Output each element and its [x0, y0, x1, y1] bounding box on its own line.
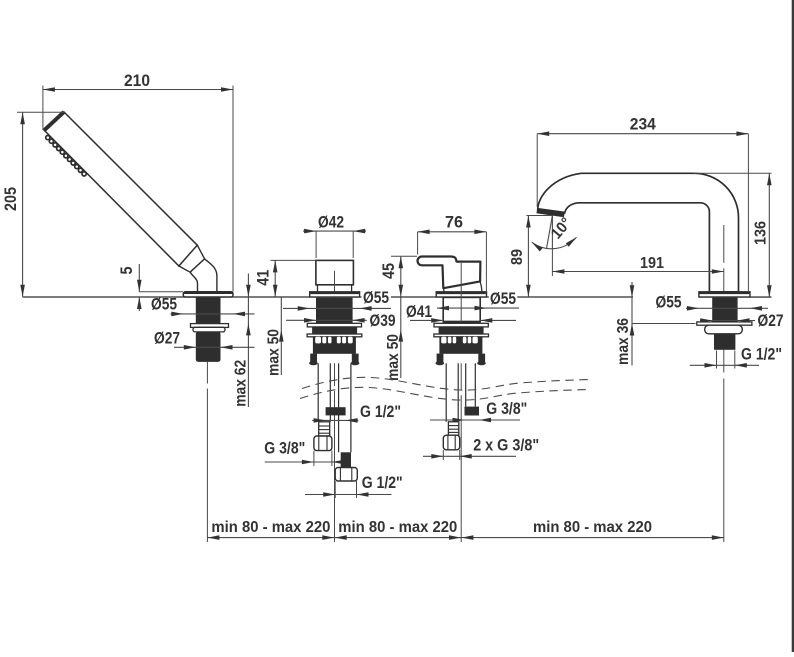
hand shower spray nozzles: [46, 136, 86, 176]
dim O55 hand shower text: [151, 295, 177, 314]
hand shower connector piece: [179, 245, 205, 272]
valve1 left pipe fitting body: [319, 422, 330, 436]
valve1 deck flange: [310, 292, 360, 297]
valve1 left supply pipe: [318, 363, 330, 422]
label 2 x G 3/8 valve2: [473, 437, 539, 455]
dim max50 valve2 line: [399, 298, 404, 379]
dim G1/2 spout ext lines: [717, 351, 735, 369]
svg-text:Ø55: Ø55: [363, 288, 389, 307]
svg-text:G 1/2": G 1/2": [741, 346, 782, 364]
svg-text:max 50: max 50: [266, 329, 283, 376]
spout riser centreline: [723, 225, 725, 542]
dim 41 text: [254, 270, 273, 286]
dim 210 ext lines: [43, 86, 233, 292]
dim min80-max220 text 3: [533, 519, 652, 536]
dim max50 valve2 text: [385, 334, 402, 381]
label G 3/8 valve1: [264, 440, 305, 458]
dim max62 text: [233, 360, 250, 407]
valve1 knob top ext line: [271, 259, 316, 261]
dim O55 valve2 line: [437, 306, 519, 311]
svg-text:min 80 - max 220: min 80 - max 220: [533, 519, 652, 536]
dim O42 line: [303, 229, 366, 234]
spout threaded tail G1/2 (black): [714, 334, 735, 350]
valve2 centreline upper: [460, 263, 462, 322]
svg-text:Ø39: Ø39: [370, 311, 396, 330]
dim max50 valve1 line: [279, 298, 284, 376]
spout aerator outlet (black): [536, 208, 565, 217]
dim 45 line: [399, 256, 404, 297]
spout deck flange: [699, 292, 750, 297]
svg-text:G 3/8": G 3/8": [486, 400, 527, 418]
dim min80-max220 text 1: [211, 519, 330, 536]
dim 2xG3/8 ext lines: [443, 450, 459, 460]
dim 205 ext line top: [17, 111, 65, 113]
svg-text:Ø27: Ø27: [154, 329, 180, 348]
dim 210 text: [124, 71, 150, 90]
svg-text:45: 45: [379, 263, 398, 279]
break wavy line upper: [302, 377, 592, 390]
angle 10 deg reference lines: [547, 216, 553, 249]
svg-text:41: 41: [254, 270, 273, 286]
svg-text:89: 89: [509, 249, 526, 265]
valve2 clamp plate 2: [434, 334, 489, 337]
svg-text:min 80 - max 220: min 80 - max 220: [211, 519, 330, 536]
dim 41 line: [273, 260, 278, 296]
dim 89 text: [509, 249, 526, 265]
dim O39 valve1 text: [370, 311, 396, 330]
valve2 left supply pipe: [446, 363, 458, 422]
dim min80-max220 line: [207, 535, 723, 540]
page right border line: [792, 0, 794, 652]
valve1 right pipe fitting hex nut: [335, 468, 357, 482]
valve1 right supply pipe: [339, 363, 351, 452]
dim 234 text: [630, 115, 656, 134]
dim O42 text: [318, 212, 344, 231]
valve2 mounting legs: [436, 354, 486, 366]
valve1 mounting legs: [309, 354, 359, 366]
spout fastening nut: [705, 325, 743, 334]
svg-text:Ø41: Ø41: [406, 302, 432, 321]
dim 136 ext line top: [694, 172, 772, 174]
dim 234 line: [537, 131, 748, 136]
hand shower fastening nut: [193, 327, 225, 332]
dim 76 text: [445, 213, 463, 232]
dim G1/2 valve1 fitting ext lines: [335, 481, 356, 498]
valve2 body below deck (O41): [443, 297, 480, 321]
label G 1/2 spout: [741, 346, 782, 364]
dim O55 spout text bg: [648, 293, 688, 311]
valve2 lever handle and mixer body: [418, 257, 481, 289]
svg-text:max 36: max 36: [615, 318, 632, 365]
valve2 body below deck bottom edge: [443, 321, 480, 323]
dim O27 spout text: [758, 311, 784, 330]
dim G1/2 valve1 fitting line: [305, 492, 392, 497]
hand shower mounting shank upper (black): [196, 298, 221, 324]
svg-text:234: 234: [630, 115, 656, 134]
dim max62 line: [246, 274, 251, 408]
valve2 right supply pipe: [466, 363, 476, 406]
valve2 mounting block (black): [439, 337, 482, 354]
valve2 body base arcs: [443, 281, 482, 291]
svg-text:136: 136: [752, 221, 769, 245]
dim O42 ext lines: [316, 231, 353, 258]
dim 136 ext line bottom: [751, 296, 772, 298]
dim 234 ext lines: [537, 134, 748, 291]
dim 191 line: [552, 269, 723, 274]
dim G3/8 valve1 ext lines: [314, 451, 332, 466]
valve2 centreline: [460, 363, 462, 542]
svg-text:max 62: max 62: [233, 360, 250, 407]
label G 3/8 valve2: [486, 400, 527, 418]
valve1 knob neck: [318, 285, 352, 292]
dim O41 valve2 line: [410, 318, 516, 323]
dim 76 ext lines: [418, 232, 487, 292]
dim max36 line: [630, 282, 696, 366]
dim 191 ext line: [551, 249, 553, 277]
valve2 clamp ring (black): [439, 327, 484, 334]
valve1 left pipe fitting hex nut: [314, 436, 332, 451]
svg-text:G 1/2": G 1/2": [360, 403, 401, 421]
dim O27 hand shower text: [154, 329, 180, 348]
dim O41 valve2 text: [406, 302, 432, 321]
hand shower centreline: [206, 362, 208, 542]
dim 136 line: [767, 173, 772, 297]
dim 205 line: [20, 112, 25, 296]
valve1 knob cylinder: [316, 260, 354, 284]
dim 2xG3/8 line: [423, 454, 516, 459]
dim max50 valve1 text: [266, 329, 283, 376]
valve2 left pipe fitting hex nut: [443, 435, 459, 450]
hand shower wand body: [44, 112, 197, 266]
valve1 mounting block (black): [313, 337, 356, 354]
valve1 body below deck (black, O39): [316, 298, 353, 324]
valve1 clamp plate 2: [307, 334, 362, 337]
dim G1/2 valve1 outlet line: [312, 418, 358, 423]
dim O55 valve1 label: [362, 288, 392, 307]
hand shower deck flange: [183, 292, 233, 297]
svg-text:Ø55: Ø55: [490, 289, 516, 308]
spout clamp plate: [697, 322, 752, 325]
valve1 right pipe fitting upper (black): [341, 452, 351, 467]
dim G3/8 valve1 line: [265, 460, 345, 465]
valve2 left pipe fitting body: [448, 422, 458, 435]
svg-text:210: 210: [124, 71, 150, 90]
dim 136 text: [752, 221, 769, 245]
svg-text:max 50: max 50: [385, 334, 402, 381]
dim 191 text: [640, 255, 664, 272]
spout shank upper (black): [712, 298, 737, 322]
deck / mounting surface line: [23, 296, 772, 298]
valve2 clamp plate 1: [434, 323, 488, 327]
hand shower fastening nut washer: [191, 324, 229, 328]
svg-text:Ø55: Ø55: [151, 295, 177, 314]
dim 5 line: [137, 264, 183, 311]
valve1 centreline: [334, 363, 336, 542]
valve1 clamp plate 1: [307, 323, 361, 327]
break wavy line lower: [300, 387, 590, 400]
svg-text:76: 76: [445, 213, 463, 232]
svg-text:Ø55: Ø55: [656, 293, 682, 312]
svg-text:191: 191: [640, 255, 664, 272]
label G 1/2 valve1 fitting: [362, 474, 403, 492]
svg-text:Ø42: Ø42: [318, 212, 344, 231]
dim G1/2 spout line: [690, 363, 759, 368]
valve2 deck flange: [436, 292, 486, 297]
svg-text:G 3/8": G 3/8": [264, 440, 305, 458]
dim 89 line: [526, 216, 531, 297]
dim O55 hand shower line: [171, 312, 255, 317]
dim O27 spout line: [700, 318, 755, 323]
dim 76 line: [418, 230, 487, 235]
spout body: [538, 173, 739, 291]
dim O27 hand shower line: [174, 345, 255, 350]
dim O39 valve1 line: [286, 318, 367, 323]
svg-text:min 80 - max 220: min 80 - max 220: [338, 519, 457, 536]
hand shower head face (thick): [44, 112, 64, 130]
label G 1/2 valve1 outlet: [360, 403, 401, 421]
valve2 G3/8 block (black): [465, 407, 480, 416]
valve1 G1/2 outlet block (black): [326, 407, 346, 415]
dim min80-max220 text 2: [338, 519, 457, 536]
valve1 knob centreline: [334, 271, 336, 299]
angle 10 deg arc: [532, 237, 577, 251]
dim G3/8 valve2 line: [430, 418, 520, 423]
svg-text:2 x G 3/8": 2 x G 3/8": [473, 437, 539, 455]
svg-text:205: 205: [1, 187, 20, 211]
valve1 clamp ring (black): [312, 327, 357, 334]
dim 89 ext line: [527, 215, 553, 217]
angle 10 deg text: [548, 215, 575, 243]
dim O55 valve1 line: [283, 306, 391, 311]
dim O55 spout text: [656, 293, 682, 312]
svg-text:Ø27: Ø27: [758, 311, 784, 330]
svg-text:G 1/2": G 1/2": [362, 474, 403, 492]
dim max36 text: [615, 318, 632, 365]
dim 5 text: [117, 267, 136, 275]
dim 205 text: [1, 187, 20, 211]
dim 210 line: [43, 87, 233, 92]
dim 45 text: [379, 263, 398, 279]
hand shower mounting shank lower (black): [196, 332, 221, 362]
dim O55 spout line: [686, 306, 768, 311]
dim O55 valve2 label: [489, 289, 518, 308]
svg-text:5: 5: [117, 267, 136, 275]
hand shower elbow: [190, 259, 217, 292]
dim 45 ext line: [391, 255, 417, 257]
